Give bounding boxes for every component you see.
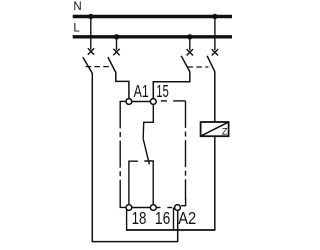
relay outline elbow to A2 xyxy=(181,199,185,206)
terminal box top edge dash 16-A2 xyxy=(167,207,172,209)
relay outline left dashed edge xyxy=(119,101,121,201)
terminal x mark S1b xyxy=(113,49,119,55)
wire drop from L to S1b xyxy=(116,37,118,50)
svg-text:A2: A2 xyxy=(178,208,196,228)
wire bottom run to A2 xyxy=(92,241,178,243)
svg-text:15: 15 xyxy=(156,81,169,101)
switch S2b blade xyxy=(207,56,215,72)
bus N xyxy=(73,15,232,18)
terminal box bottom: bottom edge xyxy=(126,229,216,231)
relay outline elbow to 18 xyxy=(120,201,125,208)
switch S1a blade xyxy=(83,57,93,73)
terminal circle 18 xyxy=(126,205,132,211)
load Z box xyxy=(201,122,229,136)
junction dot on L at x=116.5 xyxy=(114,34,119,39)
svg-text:16: 16 xyxy=(155,208,170,228)
wire S1b to A1 xyxy=(116,72,129,98)
terminal box top edge stub right of 16 xyxy=(156,207,160,209)
switch S2a blade xyxy=(181,56,190,72)
wire drop from L to S2a xyxy=(189,37,191,50)
wire drop from N to S1a xyxy=(90,17,92,50)
svg-text:Z: Z xyxy=(222,126,228,137)
junction dot on N at x=90.8 xyxy=(88,14,93,19)
wire A2 stem xyxy=(177,210,179,242)
wire S1a down left side xyxy=(91,73,93,242)
terminal circle 15 xyxy=(150,99,156,105)
terminal box bottom: separator before A2 xyxy=(173,208,175,230)
contact blade xyxy=(143,139,149,165)
terminal circle A1 xyxy=(126,99,132,105)
svg-text:N: N xyxy=(73,1,81,13)
terminal x mark S1a xyxy=(88,48,94,54)
wire Z to bottom xyxy=(214,136,216,230)
wire drop from N to S2b xyxy=(214,17,216,51)
wire S2a to 15 xyxy=(153,71,190,98)
terminal circle 16 xyxy=(150,205,156,211)
load Z diagonal xyxy=(201,122,228,136)
mechanical coupling S2 (dashed) xyxy=(188,66,209,68)
junction dot on L at x=189.8 xyxy=(187,34,192,39)
junction dot on N at x=214.9 xyxy=(212,14,217,19)
svg-text:L: L xyxy=(73,22,80,34)
wire S2b to load Z xyxy=(214,71,216,122)
terminal box bottom: left edge xyxy=(126,208,128,230)
terminal x mark S2a xyxy=(187,49,193,55)
switch S1b blade xyxy=(108,57,116,72)
mechanical coupling S1 (dashed) xyxy=(86,66,113,68)
terminal box top edge segment 18-16 xyxy=(132,207,151,209)
bus L xyxy=(73,35,232,38)
fixed contact / wire to 16 xyxy=(144,161,153,205)
wire between A1 and 15 terminals xyxy=(132,101,151,103)
contact: 15 stem and pivot xyxy=(143,104,153,138)
fixed contact / wire to 18 xyxy=(129,161,138,204)
terminal circle A2 xyxy=(175,205,181,211)
relay outline right dashed edge xyxy=(185,101,187,200)
relay outline top dashed edge xyxy=(161,100,186,102)
svg-text:18: 18 xyxy=(132,208,147,228)
terminal x mark S2b xyxy=(212,49,218,55)
relay outline left stub xyxy=(120,100,126,102)
svg-text:A1: A1 xyxy=(134,81,149,101)
